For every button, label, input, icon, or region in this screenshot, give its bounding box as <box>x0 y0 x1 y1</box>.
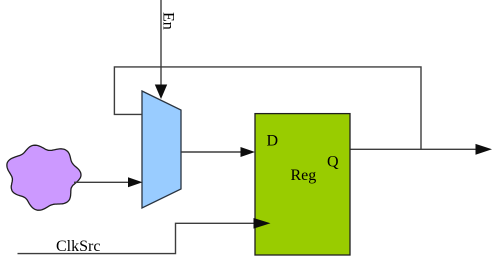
svg-text:Q: Q <box>327 154 339 171</box>
label ClkSrc <box>56 238 100 255</box>
multiplexer MUX <box>142 91 181 208</box>
wire mux output to register D input <box>182 147 256 157</box>
label Q (register output pin) <box>327 154 339 171</box>
svg-text:En: En <box>160 12 177 30</box>
wire En select line into mux <box>155 0 167 99</box>
register Reg <box>255 114 350 255</box>
wire register Q output <box>351 144 493 155</box>
wire ClkSrc to register clock input <box>18 218 271 254</box>
combinational logic cloud <box>7 145 81 210</box>
svg-text:D: D <box>267 133 279 150</box>
svg-text:ClkSrc: ClkSrc <box>56 238 100 255</box>
label En <box>160 12 177 30</box>
svg-text:Reg: Reg <box>291 167 317 184</box>
wire feedback from Q to mux input <box>114 67 421 149</box>
label D (register data input pin) <box>267 133 279 150</box>
label Reg <box>291 167 317 184</box>
wire cloud output to mux input <box>74 177 143 187</box>
